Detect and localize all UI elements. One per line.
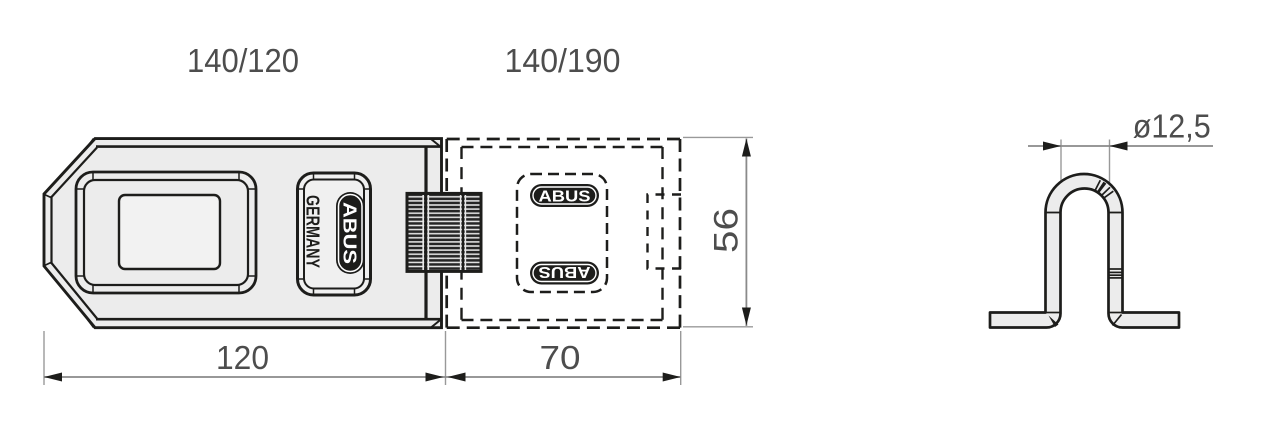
arrow diameter left xyxy=(1043,142,1061,151)
svg-text:ø12,5: ø12,5 xyxy=(1133,108,1211,145)
arrow 70 left xyxy=(448,373,466,382)
extension line right of 70 xyxy=(680,331,682,385)
staple extension line left xyxy=(1060,140,1062,186)
dashed slot rect xyxy=(648,195,682,269)
knurl vertical line B xyxy=(462,193,464,271)
dashed extension inner right line xyxy=(661,147,663,320)
body inner left edge line xyxy=(50,196,52,264)
knurled hinge sleeve xyxy=(407,193,481,271)
staple arch hatch wedge xyxy=(1097,182,1106,193)
dashed label rounded rect xyxy=(517,174,607,292)
svg-text:70: 70 xyxy=(540,339,581,376)
svg-text:GERMANY: GERMANY xyxy=(302,195,322,268)
label pill inner line xyxy=(304,180,364,289)
dashed extension inner bottom line xyxy=(462,319,663,321)
label pill outer xyxy=(298,173,371,295)
dashed extension inner top line xyxy=(462,146,663,148)
ABUS pill on label xyxy=(336,192,365,274)
dimension line 56 xyxy=(745,139,747,327)
svg-text:ABUS: ABUS xyxy=(340,202,360,264)
dashed extension outer rect top xyxy=(447,138,680,141)
dimension line 70 xyxy=(446,376,681,378)
staple extension line right xyxy=(1109,140,1111,188)
svg-text:ABUS: ABUS xyxy=(539,189,591,206)
svg-text:140/120: 140/120 xyxy=(187,42,299,79)
knurl vertical line A xyxy=(424,193,427,271)
arrow 120 right xyxy=(426,373,444,382)
staple arch hatch lines xyxy=(1095,180,1113,198)
dashed extension outer rect bottom xyxy=(447,326,680,329)
extension line middle (hinge) xyxy=(445,331,447,385)
staple body xyxy=(990,174,1179,328)
svg-text:ABUS: ABUS xyxy=(539,263,591,280)
dashed extension outer rect left xyxy=(445,139,448,328)
staple right foot transition line xyxy=(1109,312,1123,314)
ABUS pill top (dashed view) xyxy=(530,184,599,207)
arrow 56 top xyxy=(742,139,751,157)
body right band line xyxy=(424,146,427,321)
dashed extension inner left line xyxy=(460,147,462,320)
body inner chamfer line top-left xyxy=(52,148,98,198)
boss corner ticks xyxy=(76,172,256,293)
dimension line diameter xyxy=(1028,145,1213,147)
staple left foot transition line xyxy=(1046,312,1061,314)
hasp body outline xyxy=(44,139,442,328)
pill corner ticks xyxy=(298,173,371,295)
dashed extension outer rect right xyxy=(679,139,682,328)
staple arc transition left xyxy=(1046,212,1061,214)
staple left bend hatch xyxy=(1049,316,1059,328)
arrow 120 left xyxy=(44,373,62,382)
arrow diameter right xyxy=(1110,142,1128,151)
boss inner rounded rect xyxy=(84,180,248,285)
body top-right chamfer xyxy=(431,139,442,148)
body inner chamfer line bottom-left xyxy=(52,263,98,319)
dimension line 120 xyxy=(44,376,446,378)
extension line bottom of 56 xyxy=(683,326,753,328)
keyhole recess rect xyxy=(119,195,220,269)
staple right leg hatch band xyxy=(1110,269,1122,278)
arrow 56 bottom xyxy=(742,308,751,326)
body bottom-right chamfer xyxy=(431,319,442,328)
body chamfer corner ticks xyxy=(45,139,94,328)
svg-text:56: 56 xyxy=(708,208,746,253)
body inner bottom edge line xyxy=(96,318,441,321)
staple right bend hatch xyxy=(1113,315,1122,326)
svg-text:120: 120 xyxy=(216,339,269,376)
extension line top of 56 xyxy=(683,136,753,138)
extension line left of 120 xyxy=(43,331,45,385)
boss outer rounded rect xyxy=(76,172,256,293)
staple arc transition right xyxy=(1109,212,1123,214)
body inner top edge line xyxy=(96,145,441,148)
arrow 70 right xyxy=(663,373,681,382)
svg-text:140/190: 140/190 xyxy=(505,42,621,79)
ABUS pill bottom (dashed view, rotated 180) xyxy=(530,262,599,285)
